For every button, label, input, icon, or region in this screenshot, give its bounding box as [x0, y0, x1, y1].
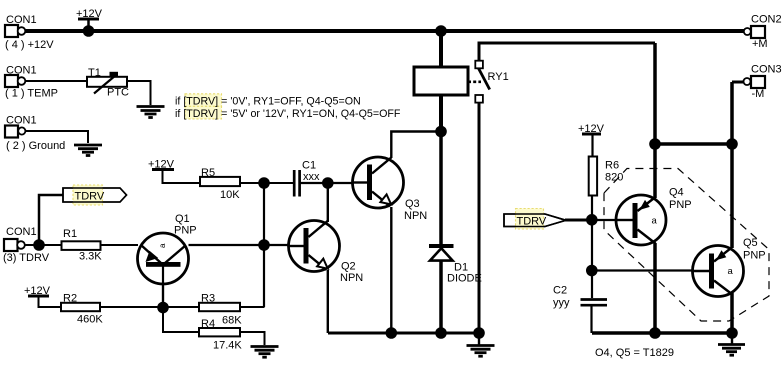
- svg-text:( 1 ) TEMP: ( 1 ) TEMP: [5, 88, 58, 100]
- svg-text:NPN: NPN: [340, 272, 363, 284]
- svg-text:xxx: xxx: [303, 171, 320, 183]
- svg-text:T1: T1: [88, 67, 101, 79]
- svg-text:+12V: +12V: [76, 8, 103, 20]
- svg-text:yyy: yyy: [553, 297, 570, 309]
- svg-text:R1: R1: [63, 228, 77, 240]
- svg-text:3.3K: 3.3K: [79, 251, 102, 263]
- svg-text:Q1: Q1: [175, 213, 190, 225]
- svg-text:(3) TDRV: (3) TDRV: [3, 252, 50, 264]
- svg-text:Q3: Q3: [405, 198, 420, 210]
- svg-text:CON2: CON2: [751, 14, 782, 26]
- svg-text:68K: 68K: [222, 315, 242, 327]
- svg-text:R5: R5: [201, 167, 215, 179]
- svg-text:CON3: CON3: [751, 64, 782, 76]
- svg-text:Q4: Q4: [669, 187, 684, 199]
- svg-text:if [TDRV] = '0V', RY1=OFF, Q4-: if [TDRV] = '0V', RY1=OFF, Q4-Q5=ON: [175, 96, 361, 108]
- svg-text:a: a: [652, 216, 658, 227]
- svg-text:CON1: CON1: [6, 65, 37, 77]
- svg-text:R2: R2: [63, 293, 77, 305]
- svg-text:R4: R4: [201, 318, 215, 330]
- svg-text:-M: -M: [752, 88, 765, 100]
- svg-text:PNP: PNP: [743, 250, 766, 262]
- svg-text:CON1: CON1: [6, 115, 37, 127]
- svg-text:460K: 460K: [77, 314, 103, 326]
- svg-text:( 2 ) Ground: ( 2 ) Ground: [6, 140, 65, 152]
- svg-text:C2: C2: [553, 285, 567, 297]
- svg-text:R6: R6: [605, 160, 619, 172]
- svg-text:+12V: +12V: [148, 159, 175, 171]
- svg-text:820: 820: [605, 172, 623, 184]
- svg-text:10K: 10K: [220, 189, 240, 201]
- svg-text:CON1: CON1: [6, 226, 37, 238]
- svg-text:O4, Q5 = T1829: O4, Q5 = T1829: [595, 347, 674, 359]
- svg-text:TDRV: TDRV: [517, 216, 547, 228]
- svg-text:RY1: RY1: [488, 71, 509, 83]
- svg-text:PTC: PTC: [107, 87, 129, 99]
- svg-text:CON1: CON1: [6, 14, 37, 26]
- svg-text:TDRV: TDRV: [75, 191, 105, 203]
- svg-text:a: a: [158, 243, 167, 248]
- svg-text:+M: +M: [752, 38, 768, 50]
- svg-text:17.4K: 17.4K: [213, 340, 242, 352]
- svg-text:PNP: PNP: [669, 199, 692, 211]
- svg-text:R3: R3: [201, 293, 215, 305]
- svg-text:( 4 ) +12V: ( 4 ) +12V: [5, 39, 54, 51]
- svg-text:if [TDRV] = '5V' or '12V', RY1: if [TDRV] = '5V' or '12V', RY1=ON, Q4-Q5…: [175, 108, 401, 120]
- svg-text:C1: C1: [302, 160, 316, 172]
- svg-text:a: a: [728, 266, 734, 277]
- svg-text:Q5: Q5: [743, 237, 758, 249]
- svg-text:+12V: +12V: [24, 285, 51, 297]
- svg-text:+12V: +12V: [578, 123, 605, 135]
- svg-text:NPN: NPN: [404, 210, 427, 222]
- svg-text:DIODE: DIODE: [447, 273, 482, 285]
- svg-text:PNP: PNP: [174, 225, 197, 237]
- svg-text:Q2: Q2: [341, 261, 356, 273]
